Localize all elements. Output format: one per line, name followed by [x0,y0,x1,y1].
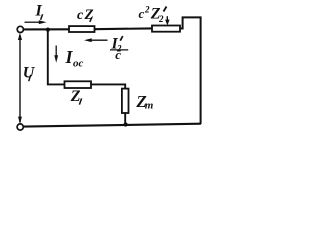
svg-text:c: c [115,47,121,62]
svg-text:m: m [145,100,154,112]
svg-text:c: c [139,6,145,21]
svg-text:2: 2 [158,14,164,24]
svg-text:Z: Z [84,7,94,23]
svg-text:oc: oc [73,58,84,70]
svg-text:c: c [77,8,84,23]
svg-text:Z: Z [70,88,81,105]
svg-text:2: 2 [144,4,150,14]
